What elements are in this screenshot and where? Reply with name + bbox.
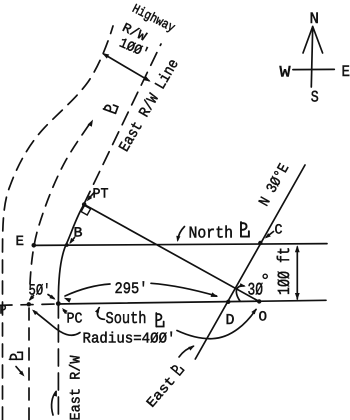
east centerline N30E diagonal: [195, 165, 305, 359]
node D dot: [226, 300, 230, 304]
radius left leader arrow: [34, 311, 80, 335]
east R/W dashed line below PC: [57, 304, 59, 420]
east CL leader arrow: [179, 346, 194, 357]
north CL symbol: [241, 222, 249, 236]
svg-text:O: O: [259, 310, 268, 326]
node PT dot: [82, 202, 87, 207]
north label arrow: [178, 227, 185, 241]
svg-text:East: East: [144, 374, 179, 411]
node at centerline crossing: [27, 302, 31, 306]
svg-text:N: N: [310, 10, 320, 28]
100' dimension arrow: [104, 54, 150, 81]
svg-text:South: South: [106, 309, 147, 328]
100 ft dimension line: [296, 247, 298, 299]
node B dot: [65, 243, 69, 247]
centerline direction arrowhead: [88, 118, 96, 126]
svg-text:1ØØ': 1ØØ': [117, 36, 152, 63]
radius right leader arrow: [177, 310, 256, 339]
node O dot: [257, 299, 261, 303]
svg-text:P: P: [0, 303, 7, 318]
compass east-west line: [293, 68, 334, 70]
svg-text:East R/W Line: East R/W Line: [116, 56, 183, 155]
node PC dot: [56, 301, 61, 306]
east R/W tangent dashed line: [84, 44, 161, 204]
north centerline horizontal: [34, 244, 327, 246]
svg-text:3Ø: 3Ø: [248, 281, 264, 301]
svg-text:North: North: [189, 224, 234, 243]
south CL symbol: [156, 313, 163, 326]
south centerline solid part: [57, 300, 326, 304]
295' dimension left segment: [65, 284, 110, 296]
svg-text:E: E: [342, 63, 350, 81]
east R/W leader arrow: [52, 392, 56, 416]
svg-text:C: C: [275, 223, 283, 239]
svg-text:1ØØ ft: 1ØØ ft: [276, 247, 295, 295]
svg-text:295': 295': [115, 280, 148, 298]
south curl arrow: [97, 308, 104, 320]
svg-text:D: D: [226, 312, 235, 329]
east R/W solid curve PC to PT: [58, 205, 84, 304]
west highway R/W dashed curve: [3, 26, 114, 420]
node C dot: [258, 241, 262, 245]
highway centerline dashed curve: [28, 303, 30, 420]
right angle square at PT: [81, 206, 91, 216]
svg-text:E: E: [16, 234, 25, 250]
svg-text:Radius=4ØØ': Radius=4ØØ': [83, 331, 176, 348]
svg-text:W: W: [280, 64, 291, 82]
radius line PT to O: [84, 205, 259, 302]
compass north arrow: [303, 27, 323, 88]
centerline CL symbol (top): [103, 102, 117, 113]
svg-text:N 3Ø°E: N 3Ø°E: [256, 161, 293, 209]
svg-text:B: B: [74, 226, 83, 242]
svg-text:PT: PT: [93, 187, 109, 203]
svg-text:East R/W: East R/W: [69, 355, 85, 420]
svg-text:PC: PC: [67, 311, 83, 328]
node E dot: [32, 243, 37, 248]
295' dimension right segment: [151, 283, 217, 296]
south centerline dashed part: [0, 304, 57, 305]
bottom CL symbol with arrow: [10, 352, 23, 359]
30 degree angle arc with arrow: [236, 286, 244, 301]
svg-text:S: S: [311, 89, 319, 107]
